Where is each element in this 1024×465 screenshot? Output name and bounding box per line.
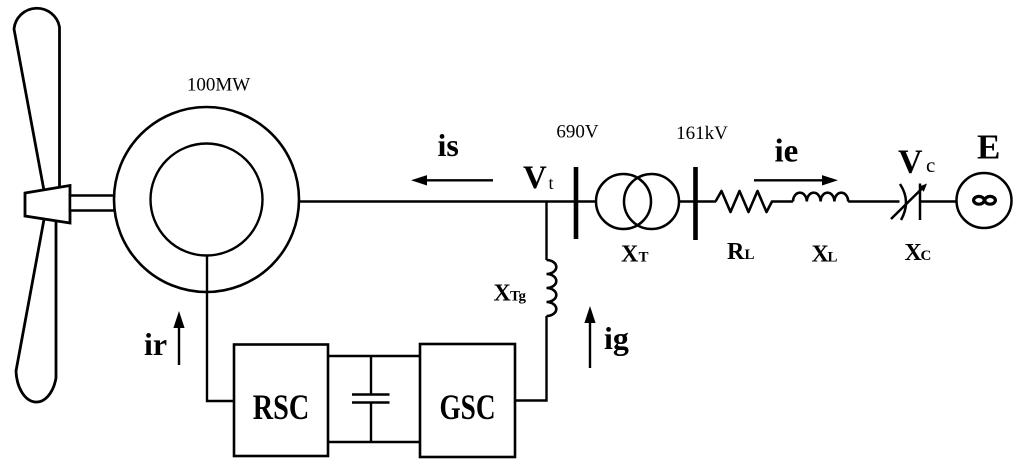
turbine hub xyxy=(25,186,70,224)
svg-text:RSC: RSC xyxy=(253,387,310,427)
inductor XTg xyxy=(547,260,557,316)
resistor RL xyxy=(716,191,794,212)
svg-text:690V: 690V xyxy=(556,122,599,143)
DC link bottom wire xyxy=(328,441,420,443)
transformer XT xyxy=(596,174,679,229)
svg-text:g: g xyxy=(519,288,527,304)
svg-text:X: X xyxy=(621,241,639,267)
svg-text:L: L xyxy=(745,247,755,263)
svg-text:L: L xyxy=(828,250,838,266)
arrow ig (GSC current) xyxy=(584,306,595,368)
converter box RSC xyxy=(234,345,328,457)
svg-text:R: R xyxy=(727,239,745,265)
wire Vt junction down to XTg xyxy=(545,202,547,261)
svg-text:E: E xyxy=(977,128,1000,167)
inductor XL xyxy=(793,193,848,202)
DC link capacitor xyxy=(352,356,390,442)
svg-text:ir: ir xyxy=(144,326,167,362)
wire XTg to GSC xyxy=(515,316,547,401)
svg-text:is: is xyxy=(438,127,459,163)
svg-text:t: t xyxy=(549,173,554,193)
wire transformer to resistor xyxy=(679,200,716,202)
wire stator to transformer (main bus line) xyxy=(299,200,597,202)
svg-text:V: V xyxy=(898,144,923,181)
infinite bus E (circle with infinity) xyxy=(957,173,1012,228)
svg-text:100MW: 100MW xyxy=(187,75,250,96)
wire inductor to capacitor xyxy=(848,200,899,202)
shaft xyxy=(70,196,118,211)
arrow is (stator current) xyxy=(411,175,493,185)
svg-text:GSC: GSC xyxy=(440,387,496,427)
svg-text:V: V xyxy=(523,160,547,196)
svg-text:C: C xyxy=(921,248,932,264)
bus 690V xyxy=(574,167,579,239)
generator stator (outer circle) xyxy=(114,107,299,292)
svg-text:ig: ig xyxy=(604,320,629,356)
svg-text:c: c xyxy=(926,153,935,177)
DC link top wire xyxy=(328,355,420,357)
svg-text:ie: ie xyxy=(775,134,799,170)
svg-text:161kV: 161kV xyxy=(676,123,728,144)
arrow ir (rotor current) xyxy=(173,311,184,365)
turbine blade B2 (lower) xyxy=(16,214,56,402)
turbine blade B1 (upper) xyxy=(14,8,60,196)
bus 161kV xyxy=(693,167,698,240)
svg-text:T: T xyxy=(639,249,649,265)
svg-text:X: X xyxy=(494,280,512,306)
capacitor XC (variable series capacitor) xyxy=(891,184,927,221)
wire rotor to RSC xyxy=(207,256,234,402)
converter box GSC xyxy=(420,344,515,457)
generator rotor (inner circle) xyxy=(151,144,263,256)
wire capacitor to infinite bus xyxy=(921,200,957,202)
arrow ie (line current) xyxy=(754,175,838,185)
